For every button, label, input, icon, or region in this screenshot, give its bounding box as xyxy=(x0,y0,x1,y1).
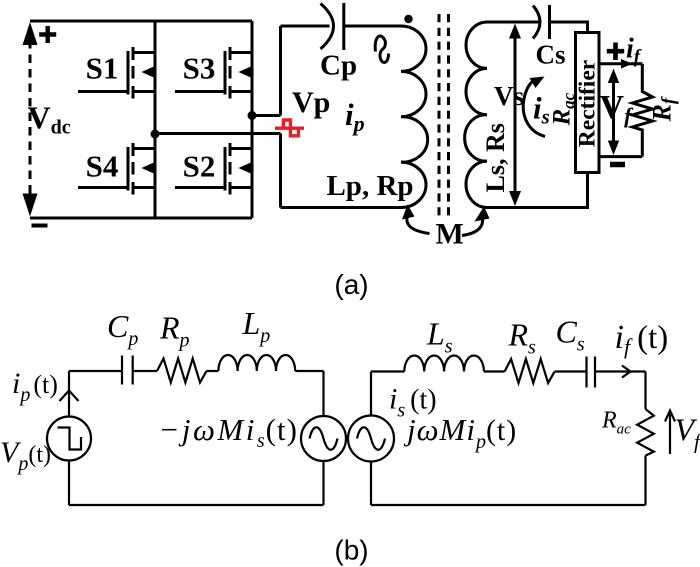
if current arrowhead xyxy=(621,59,632,69)
Vdc arrowhead bottom xyxy=(23,194,38,217)
wire bridge output upper xyxy=(252,114,281,117)
svg-text:S2: S2 xyxy=(183,149,216,184)
svg-text:S4: S4 xyxy=(86,149,119,184)
transistor S3 xyxy=(175,47,253,99)
wire bottom rail xyxy=(30,217,252,220)
svg-text:(a): (a) xyxy=(334,269,368,300)
svg-text:Cs: Cs xyxy=(536,40,566,70)
capacitor Cs plates xyxy=(587,357,596,388)
secondary winding Ls xyxy=(465,22,487,208)
capacitor Cp straight plate xyxy=(342,3,345,50)
wire Cp to winding xyxy=(344,25,401,28)
current squiggle ip xyxy=(375,36,388,62)
Vs measurement arrow xyxy=(509,24,521,207)
mutual arrow left xyxy=(402,205,430,234)
svg-text:−jωMis(t): −jωMis(t) xyxy=(159,412,298,452)
source -jwMis(t) sine xyxy=(301,416,346,461)
transistor S2 xyxy=(175,143,253,195)
transformer core dashed lines xyxy=(439,14,449,219)
mutual arrow right xyxy=(462,207,490,236)
svg-text:Vp: Vp xyxy=(292,86,330,119)
node left-leg midpoint xyxy=(151,130,160,139)
wire b-left right vertical xyxy=(322,371,324,505)
wire b-right right vertical top xyxy=(644,372,646,410)
capacitor Cp curved plate xyxy=(321,4,334,50)
wire primary top xyxy=(281,25,330,28)
Vdc arrowhead top xyxy=(23,22,38,45)
wire right bridge leg xyxy=(251,21,254,218)
wire b-right top xyxy=(371,370,646,372)
wire b-left left vertical xyxy=(68,371,70,505)
ip(t) arrowhead xyxy=(60,391,79,402)
resistor Rp xyxy=(157,359,207,383)
svg-text:Ls, Rs: Ls, Rs xyxy=(481,123,510,192)
svg-text:M: M xyxy=(436,218,464,251)
square-wave symbol (red) at Vp xyxy=(275,120,304,136)
label minus output xyxy=(610,162,625,168)
transistor S1 xyxy=(78,47,156,99)
capacitor Cs curved plate xyxy=(533,6,540,39)
wire Cs to rectifier xyxy=(550,22,588,33)
capacitor Cp plates xyxy=(122,356,133,385)
wire top rail xyxy=(30,20,252,23)
svg-text:Cp: Cp xyxy=(320,50,357,82)
wire primary left upper stub xyxy=(279,26,282,116)
svg-text:(b): (b) xyxy=(334,535,368,566)
source jwMip(t) sine xyxy=(348,416,394,462)
wire primary left lower stub xyxy=(279,134,282,208)
svg-text:if(t): if(t) xyxy=(615,319,669,359)
wire b-right bottom xyxy=(371,504,646,506)
polarity dot primary xyxy=(404,15,412,23)
rectifier box U1 xyxy=(576,33,600,173)
Vf arrow xyxy=(665,411,675,455)
inductor Lp xyxy=(218,355,295,371)
Vf measurement arrow xyxy=(608,69,619,156)
wire bridge output lower xyxy=(155,132,281,135)
minus label xyxy=(32,224,48,228)
inductor Ls xyxy=(404,356,484,372)
node right-leg midpoint xyxy=(248,111,257,120)
svg-text:Vs: Vs xyxy=(494,81,524,111)
resistor Rs xyxy=(505,359,555,383)
wire b-left top xyxy=(69,370,324,372)
is current arrow (curved) xyxy=(523,77,545,137)
wire left bridge leg xyxy=(154,21,157,218)
source Vp(t) square-wave xyxy=(47,417,91,461)
wire secondary bottom xyxy=(487,173,588,208)
Vdc source dashed line xyxy=(29,40,32,198)
label plus output xyxy=(607,43,624,61)
svg-text:S1: S1 xyxy=(86,51,119,86)
plus label xyxy=(39,26,56,43)
svg-text:S3: S3 xyxy=(183,51,216,86)
wire b-right left vertical xyxy=(370,372,372,506)
capacitor Cs straight plate xyxy=(548,5,551,39)
transistor S4 xyxy=(78,143,156,195)
resistor Rf xyxy=(632,64,652,157)
wire secondary top xyxy=(487,21,541,24)
wire primary bottom xyxy=(281,206,402,209)
wire rectifier output bottom xyxy=(599,155,643,158)
wire rectifier output top xyxy=(599,62,643,65)
resistor Rac xyxy=(637,409,654,456)
if(t) arrowhead xyxy=(622,366,631,378)
svg-text:Lp, Rp: Lp, Rp xyxy=(326,170,413,202)
svg-text:jωMip(t): jωMip(t) xyxy=(403,412,517,453)
primary winding Lp xyxy=(401,26,428,208)
wire b-right right vertical bottom xyxy=(644,456,646,506)
wire b-left bottom xyxy=(69,504,324,506)
svg-text:Rectifier: Rectifier xyxy=(575,60,601,147)
